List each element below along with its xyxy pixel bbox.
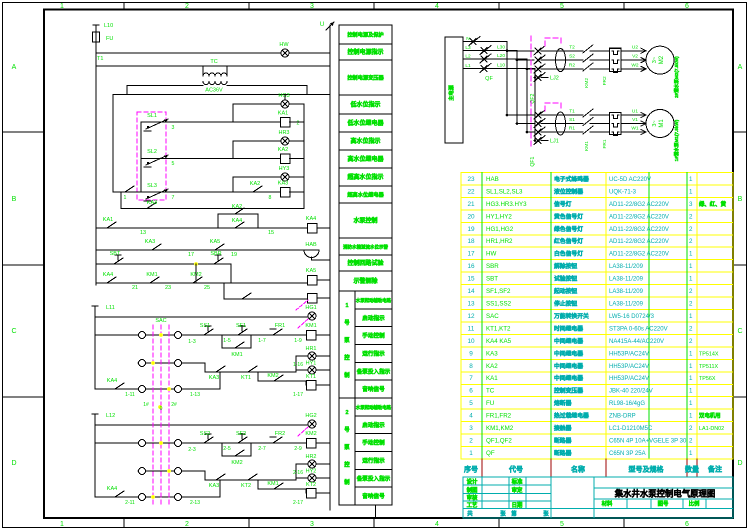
- wire KA5 coil to rail: [317, 279, 330, 281]
- svg-text:A: A: [12, 64, 17, 71]
- svg-text:2: 2: [689, 338, 693, 345]
- thermal contact FR2: [269, 442, 273, 444]
- svg-text:2-9: 2-9: [294, 446, 302, 452]
- svg-text:主电源: 主电源: [447, 84, 455, 100]
- BOM row 17 HW: [467, 250, 693, 258]
- level switch SL1: [147, 126, 149, 128]
- selector SAC contact b2: [175, 440, 182, 447]
- svg-text:L12: L12: [106, 413, 115, 419]
- magenta leader to HG2: [298, 426, 309, 436]
- svg-text:19: 19: [231, 252, 237, 258]
- svg-text:FR1,FR2: FR1,FR2: [486, 413, 512, 420]
- lamp HR2: [308, 460, 316, 468]
- thermal relay FR1: [610, 113, 622, 135]
- function description boxes column: [339, 25, 392, 44]
- svg-text:HG2: HG2: [305, 413, 316, 419]
- BOM row 12 SAC: [467, 312, 693, 320]
- timer coil KT1: [306, 380, 316, 390]
- BOM row 6 TC: [469, 387, 693, 395]
- svg-text:图号: 图号: [658, 500, 669, 508]
- svg-text:试验按钮: 试验按钮: [554, 275, 577, 283]
- svg-text:KA2: KA2: [486, 363, 498, 370]
- svg-text:3: 3: [689, 201, 693, 208]
- svg-text:HR3: HR3: [278, 130, 289, 136]
- svg-text:RL98-16/4gG: RL98-16/4gG: [609, 401, 645, 407]
- svg-text:R2: R2: [569, 62, 575, 68]
- svg-text:白色信号灯: 白色信号灯: [554, 250, 583, 258]
- svg-text:音响信号: 音响信号: [362, 492, 385, 500]
- wires busbar to QF: [463, 41, 476, 43]
- svg-text:控制回路试验: 控制回路试验: [347, 259, 383, 267]
- wire rung SL2 node 5: [141, 158, 285, 160]
- contact KA4 branch: [231, 227, 235, 229]
- svg-text:HH53P/AC24V: HH53P/AC24V: [609, 376, 649, 382]
- svg-text:HH53P/AC24V: HH53P/AC24V: [609, 351, 649, 357]
- svg-text:S1: S1: [569, 117, 575, 123]
- wire left rail SL section: [112, 95, 114, 193]
- svg-text:LA38-11/209: LA38-11/209: [609, 301, 644, 307]
- wire lamps to rail 2: [316, 463, 330, 465]
- wire L10 to fuse: [95, 27, 97, 32]
- svg-text:序号: 序号: [463, 465, 478, 474]
- svg-text:13: 13: [140, 230, 146, 236]
- svg-text:HG1: HG1: [305, 305, 316, 311]
- svg-text:8: 8: [469, 363, 473, 370]
- BOM row 14 SF1,SF2: [467, 287, 693, 295]
- svg-text:ZNB-DRP: ZNB-DRP: [609, 414, 636, 420]
- wire rung SL1 node 3: [141, 121, 285, 123]
- svg-text:超高水位指示: 超高水位指示: [346, 173, 383, 181]
- svg-text:LA38-11/209: LA38-11/209: [609, 264, 644, 270]
- svg-text:SL2: SL2: [147, 149, 157, 155]
- svg-text:0: 0: [160, 406, 163, 412]
- svg-text:B: B: [738, 196, 743, 203]
- svg-text:4: 4: [435, 3, 439, 10]
- BOM row 7 KA1: [469, 374, 716, 382]
- svg-text:17: 17: [467, 251, 475, 258]
- svg-text:2: 2: [185, 521, 189, 528]
- wire jog to chain 1: [204, 363, 206, 372]
- svg-text:水泵起动辅助电路: 水泵起动辅助电路: [355, 297, 392, 304]
- svg-text:中间继电器: 中间继电器: [554, 349, 583, 357]
- svg-text:SL3: SL3: [147, 183, 157, 189]
- contact aux rung: [238, 298, 242, 300]
- BOM row 5 FU: [469, 399, 693, 407]
- svg-text:QF: QF: [486, 450, 495, 457]
- wire KA3 holding branch: [120, 192, 122, 209]
- svg-text:1-13: 1-13: [190, 392, 200, 398]
- svg-text:3: 3: [469, 425, 473, 432]
- svg-text:KA5: KA5: [306, 268, 316, 274]
- svg-text:S2: S2: [569, 54, 575, 60]
- svg-text:22: 22: [467, 188, 475, 195]
- svg-text:控制电源及保护: 控制电源及保护: [347, 31, 383, 39]
- svg-text:11: 11: [468, 325, 475, 332]
- svg-text:L3: L3: [465, 45, 471, 51]
- svg-text:3: 3: [310, 521, 314, 528]
- level switch box SL1-SL3 (dashed): [137, 112, 166, 200]
- svg-text:SF2: SF2: [236, 431, 246, 437]
- svg-text:KA2: KA2: [250, 181, 260, 187]
- svg-text:TC: TC: [210, 59, 217, 65]
- svg-text:3: 3: [172, 125, 175, 131]
- junction yellow: [194, 262, 198, 266]
- svg-text:3~: 3~: [652, 57, 658, 63]
- svg-text:集水井水泵控制电气原理图: 集水井水泵控制电气原理图: [614, 489, 716, 499]
- svg-text:L20: L20: [497, 53, 505, 59]
- svg-text:HG3: HG3: [278, 93, 289, 99]
- svg-text:2: 2: [689, 438, 693, 445]
- svg-text:运行指示: 运行指示: [362, 349, 385, 357]
- button SF2: [234, 442, 238, 444]
- branch KM timer 2: [257, 480, 259, 489]
- selector SAC contact c1: [139, 360, 146, 367]
- svg-text:1: 1: [689, 313, 693, 320]
- selector SAC contact e1: [139, 386, 146, 393]
- svg-text:备注: 备注: [707, 465, 722, 474]
- wire merge rung3 1: [219, 372, 221, 389]
- selector SAC contact a2: [139, 440, 146, 447]
- svg-text:9: 9: [469, 350, 473, 357]
- svg-text:2-13: 2-13: [190, 500, 200, 506]
- svg-text:SS1,SS2: SS1,SS2: [486, 300, 512, 307]
- wire HR3 to rung: [233, 140, 281, 142]
- svg-text:L2: L2: [465, 53, 471, 59]
- svg-text:UC-5D AC220V: UC-5D AC220V: [609, 177, 651, 183]
- svg-text:示警解除: 示警解除: [353, 277, 378, 285]
- svg-text:1: 1: [689, 450, 693, 457]
- svg-text:V1: V1: [632, 117, 638, 123]
- wire KA6 coil to rail: [317, 297, 330, 299]
- svg-text:红色信号灯: 红色信号灯: [554, 237, 583, 245]
- svg-text:10: 10: [467, 338, 475, 345]
- svg-text:KA2: KA2: [278, 147, 288, 153]
- svg-text:SS1: SS1: [200, 323, 210, 329]
- svg-text:21: 21: [132, 285, 138, 291]
- svg-text:2-16: 2-16: [293, 470, 303, 476]
- svg-text:15: 15: [467, 276, 475, 283]
- svg-text:FR1: FR1: [275, 323, 285, 329]
- svg-text:KT2: KT2: [241, 483, 251, 489]
- BOM row 16 SBR: [467, 262, 693, 270]
- wire lamps to rail 1: [316, 355, 330, 357]
- wire rung alarm node 17-19: [96, 249, 305, 251]
- svg-text:1: 1: [689, 350, 693, 357]
- motor M1: [646, 110, 674, 138]
- wires FR2 to motor: [621, 50, 646, 52]
- wire KM2 coil to rail: [316, 442, 330, 444]
- svg-text:FU: FU: [106, 36, 113, 42]
- breaker QF1 poles: [535, 112, 541, 118]
- svg-text:KT1: KT1: [306, 374, 316, 380]
- circuit breaker QF pole N: [470, 39, 476, 45]
- wire return rail SL section: [303, 104, 305, 209]
- svg-text:断路器: 断路器: [554, 437, 572, 445]
- thermal contact FR1: [269, 334, 273, 336]
- wire secondary rail 36V: [113, 94, 330, 96]
- svg-text:启动指示: 启动指示: [362, 314, 385, 322]
- wire rung KA4 node 13: [96, 227, 307, 229]
- svg-text:LA38-11/209: LA38-11/209: [609, 277, 644, 283]
- wire join test rung: [195, 264, 197, 283]
- lamp HG2: [308, 420, 316, 428]
- lamp HY2: [308, 474, 316, 482]
- svg-text:断路器: 断路器: [554, 449, 572, 457]
- BOM row 9 KA3: [469, 349, 719, 357]
- svg-text:1-17: 1-17: [293, 392, 303, 398]
- svg-text:HY2: HY2: [306, 469, 317, 475]
- svg-text:KA1: KA1: [278, 111, 288, 117]
- svg-text:N: N: [466, 36, 470, 42]
- svg-text:1: 1: [689, 176, 693, 183]
- motor M2: [646, 46, 674, 74]
- svg-text:1: 1: [689, 363, 693, 370]
- contactor KM1 contacts: [583, 109, 593, 117]
- svg-text:QF1,QF2: QF1,QF2: [486, 438, 512, 445]
- svg-text:AD11-22/8G2 AC220V: AD11-22/8G2 AC220V: [609, 214, 669, 220]
- svg-text:HAB: HAB: [305, 242, 317, 248]
- svg-text:万能转换开关: 万能转换开关: [553, 312, 589, 320]
- relay coil KA2: [280, 154, 290, 164]
- svg-text:KA4: KA4: [306, 216, 316, 222]
- svg-text:KA5: KA5: [210, 239, 220, 245]
- lamp HG3: [281, 100, 289, 108]
- relay coil KA1: [280, 117, 290, 127]
- svg-text:低水位继电器: 低水位继电器: [346, 119, 384, 127]
- svg-text:AC36V: AC36V: [205, 88, 223, 94]
- svg-text:8: 8: [269, 195, 272, 201]
- wires through CT 2: [545, 50, 583, 52]
- svg-text:KA3: KA3: [486, 350, 498, 357]
- lamp HY3: [281, 173, 289, 181]
- svg-text:KA4: KA4: [107, 486, 117, 492]
- svg-text:LC1-D1210M5C: LC1-D1210M5C: [609, 426, 653, 432]
- contact on SL3 rung left: [121, 191, 125, 193]
- svg-text:6: 6: [469, 388, 473, 395]
- svg-text:2-11: 2-11: [125, 500, 135, 506]
- svg-text:1: 1: [689, 375, 693, 382]
- svg-text:AD11-22/8G2 AC220V: AD11-22/8G2 AC220V: [609, 202, 669, 208]
- svg-text:绿、红、黄: 绿、红、黄: [699, 200, 727, 208]
- svg-text:日期: 日期: [512, 501, 523, 509]
- selector SAC contact b1: [175, 332, 182, 339]
- relay coil KA5: [307, 275, 317, 285]
- contact KA3 alarm: [148, 249, 152, 251]
- thermal relay FR2: [610, 48, 622, 71]
- wire split HR/HY 2: [295, 464, 297, 480]
- svg-text:HW: HW: [486, 251, 496, 258]
- svg-text:停止按钮: 停止按钮: [554, 299, 577, 307]
- svg-text:LW5-16 D0724/3: LW5-16 D0724/3: [609, 314, 655, 320]
- pump group box 2号泵控制: [339, 398, 392, 505]
- svg-text:KA1: KA1: [103, 217, 113, 223]
- svg-text:中间继电器: 中间继电器: [554, 337, 583, 345]
- svg-text:KA1: KA1: [486, 375, 498, 382]
- wire rung T1: [96, 52, 330, 54]
- svg-text:KM1: KM1: [146, 272, 157, 278]
- svg-text:1: 1: [689, 251, 693, 258]
- contact KM1 holding branch: [221, 335, 223, 348]
- BOM row 10 KA4 KA5: [467, 337, 693, 345]
- svg-text:超高水位继电器: 超高水位继电器: [346, 191, 384, 199]
- svg-text:KA3: KA3: [147, 200, 157, 206]
- svg-text:L10: L10: [104, 23, 113, 29]
- svg-text:SAC: SAC: [486, 313, 499, 320]
- wires FR1 to motor: [621, 114, 646, 116]
- svg-text:KM1: KM1: [267, 481, 278, 487]
- current transformer ellipse 2: [556, 49, 566, 72]
- svg-text:HAB: HAB: [486, 176, 499, 183]
- BOM row 15 SBT: [467, 275, 693, 283]
- svg-text:1-3: 1-3: [188, 339, 196, 345]
- BOM row 23 HAB: [467, 175, 693, 183]
- transformer TC secondary: [203, 82, 227, 85]
- svg-text:KM1: KM1: [305, 323, 316, 329]
- svg-text:QF1: QF1: [530, 156, 536, 166]
- svg-text:比例: 比例: [689, 500, 700, 508]
- svg-text:黄色信号灯: 黄色信号灯: [554, 212, 583, 220]
- svg-text:7: 7: [469, 375, 473, 382]
- svg-text:1-11: 1-11: [125, 392, 135, 398]
- svg-text:中间继电器: 中间继电器: [554, 374, 583, 382]
- svg-text:FR2: FR2: [602, 76, 608, 85]
- contact KA2 branch: [231, 213, 235, 215]
- svg-text:2: 2: [297, 121, 300, 127]
- title block grid: [463, 477, 733, 518]
- svg-text:1: 1: [689, 413, 693, 420]
- svg-text:标准: 标准: [511, 478, 523, 486]
- svg-text:KT2: KT2: [306, 482, 316, 488]
- wire boxes column bottom connector: [375, 505, 377, 518]
- svg-text:12: 12: [467, 313, 475, 320]
- wire HY3 to rung: [233, 176, 281, 178]
- contact KA4 pump 1: [111, 388, 115, 390]
- svg-text:时间继电器: 时间继电器: [554, 324, 583, 332]
- svg-text:制图: 制图: [467, 486, 478, 494]
- svg-text:绿色信号灯: 绿色信号灯: [554, 225, 583, 233]
- zone tick marks top: [123, 3, 125, 10]
- svg-text:审核: 审核: [467, 494, 478, 502]
- svg-text:解除按钮: 解除按钮: [553, 262, 577, 270]
- button SF1: [234, 334, 238, 336]
- svg-text:备泵投入指示: 备泵投入指示: [356, 367, 391, 375]
- contactor coil KM1: [306, 330, 316, 340]
- svg-text:共: 共: [467, 510, 473, 518]
- button SBT: [110, 263, 114, 265]
- zone tick marks right: [733, 131, 747, 133]
- selector SAC contact f1: [175, 386, 182, 393]
- svg-text:QF: QF: [485, 76, 493, 82]
- lamp HW: [281, 49, 289, 57]
- wire rung second pump 2: [138, 470, 205, 472]
- svg-text:熔断器: 熔断器: [554, 399, 572, 407]
- svg-text:控制电源变压器: 控制电源变压器: [347, 74, 384, 82]
- svg-text:KT1,KT2: KT1,KT2: [486, 325, 511, 332]
- svg-text:3~: 3~: [652, 120, 658, 126]
- svg-text:TP514X: TP514X: [699, 351, 719, 357]
- svg-text:1#潜水泵M1(7.5kW): 1#潜水泵M1(7.5kW): [673, 119, 680, 161]
- wire rung test SBT/SBR: [96, 263, 231, 265]
- svg-text:15: 15: [268, 230, 274, 236]
- svg-text:5: 5: [560, 3, 564, 10]
- wire HG3 to rail and rung: [284, 95, 286, 101]
- svg-text:FR1: FR1: [602, 139, 608, 148]
- magenta leader to HG1: [298, 318, 309, 328]
- svg-text:低水位指示: 低水位指示: [349, 101, 380, 109]
- svg-text:热过载继电器: 热过载继电器: [554, 412, 589, 420]
- svg-text:NA415A-44/AC220V: NA415A-44/AC220V: [609, 339, 664, 345]
- svg-text:KM1,KM2: KM1,KM2: [486, 425, 514, 432]
- svg-text:AD11-22/8G2 AC220V: AD11-22/8G2 AC220V: [609, 239, 669, 245]
- terminal L12: [92, 413, 98, 415]
- svg-text:2: 2: [689, 288, 693, 295]
- wires through CT 1: [545, 114, 583, 116]
- svg-text:双电机用: 双电机用: [699, 412, 721, 420]
- svg-text:HW: HW: [279, 42, 289, 48]
- selector SAC contact d1: [175, 360, 182, 367]
- svg-text:张: 张: [543, 510, 549, 518]
- svg-text:3: 3: [310, 3, 314, 10]
- svg-text:LA1-DN02: LA1-DN02: [699, 426, 724, 432]
- svg-text:水泵控制: 水泵控制: [353, 217, 377, 225]
- svg-text:HY1,HY2: HY1,HY2: [486, 213, 512, 220]
- svg-text:13: 13: [467, 300, 475, 307]
- svg-text:KA3: KA3: [209, 375, 219, 381]
- label LJ2: [541, 77, 548, 79]
- svg-text:1: 1: [469, 450, 473, 457]
- svg-text:SBT: SBT: [110, 251, 121, 257]
- svg-text:D: D: [11, 460, 16, 467]
- svg-text:25: 25: [204, 285, 210, 291]
- contact KM2 holding branch: [221, 443, 223, 456]
- label LJ1: [541, 140, 548, 142]
- contact KA1 low level: [103, 227, 107, 229]
- svg-text:7: 7: [172, 195, 175, 201]
- svg-text:SL1: SL1: [147, 113, 157, 119]
- svg-text:KM1: KM1: [231, 352, 242, 358]
- svg-text:23: 23: [467, 176, 475, 183]
- wire rung main pump 2: [95, 442, 307, 444]
- svg-text:启动指示: 启动指示: [362, 421, 385, 429]
- contactor KM2 contacts: [583, 45, 593, 53]
- svg-text:审定: 审定: [512, 486, 523, 494]
- svg-text:1: 1: [60, 521, 64, 528]
- svg-text:SBR: SBR: [210, 251, 221, 257]
- svg-text:1: 1: [124, 195, 127, 201]
- BOM row 4 FR1,FR2: [469, 412, 720, 420]
- svg-text:运行指示: 运行指示: [362, 456, 385, 464]
- svg-text:B: B: [12, 196, 17, 203]
- svg-text:起动按钮: 起动按钮: [553, 287, 577, 295]
- lamp HY1: [308, 366, 316, 374]
- wire rung KA5 coil: [96, 282, 307, 284]
- incoming supply busbar: [445, 37, 463, 143]
- svg-text:2-7: 2-7: [258, 446, 266, 452]
- svg-text:LJ2: LJ2: [550, 76, 559, 82]
- svg-text:KM1: KM1: [584, 141, 590, 151]
- zone tick marks bottom: [123, 518, 125, 528]
- svg-text:18: 18: [467, 238, 475, 245]
- svg-text:KA4: KA4: [103, 272, 113, 278]
- svg-text:AD11-22/8G2 AC220V: AD11-22/8G2 AC220V: [609, 227, 669, 233]
- svg-text:KA4: KA4: [107, 378, 117, 384]
- svg-text:L30: L30: [497, 45, 505, 51]
- svg-text:C65N 3P 25A: C65N 3P 25A: [609, 451, 646, 457]
- svg-text:C: C: [737, 328, 742, 335]
- svg-text:SAC: SAC: [155, 318, 166, 324]
- wire rung third pump 2: [95, 496, 220, 498]
- svg-text:T1: T1: [569, 109, 575, 115]
